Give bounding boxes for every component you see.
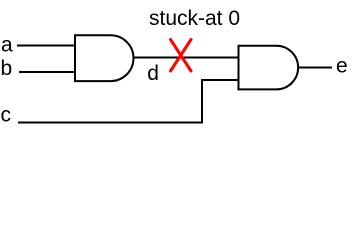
svg-text:c: c bbox=[1, 103, 12, 126]
svg-text:e: e bbox=[336, 54, 348, 77]
svg-text:d: d bbox=[147, 62, 159, 85]
svg-text:a: a bbox=[1, 33, 13, 56]
svg-text:b: b bbox=[1, 57, 13, 80]
svg-text:stuck-at 0: stuck-at 0 bbox=[149, 7, 240, 30]
